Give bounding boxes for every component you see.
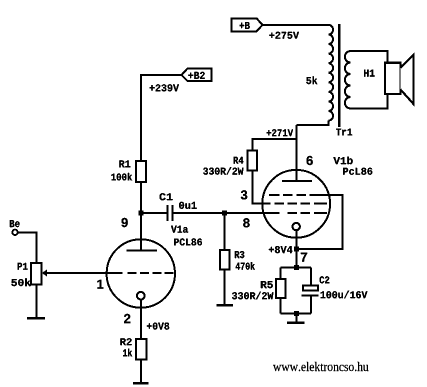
wire Be to P1 top bbox=[18, 231, 38, 233]
flag +B2 bbox=[182, 69, 212, 82]
capacitor C1 bbox=[167, 205, 174, 221]
wire R1 to node 9 bbox=[140, 182, 142, 213]
speaker H1 driver bbox=[385, 63, 400, 94]
label 100k bbox=[111, 173, 132, 181]
wire R2 to ground bbox=[140, 360, 142, 384]
wire R5 branch bottom bbox=[280, 298, 282, 314]
flag +B bbox=[231, 18, 262, 31]
label PcL86 bbox=[343, 168, 372, 175]
label 470k bbox=[236, 262, 255, 270]
node junction dot 9 bbox=[139, 211, 144, 216]
label Be bbox=[10, 220, 20, 227]
pentode V1b grid g1 row (dashed) bbox=[287, 212, 327, 214]
wire grid to P1 wiper bbox=[46, 272, 123, 274]
transformer Tr1 primary winding bbox=[329, 25, 334, 121]
label P1 bbox=[18, 263, 28, 270]
resistor R2 bbox=[136, 339, 147, 360]
pentode V1b envelope bbox=[262, 170, 330, 238]
pin 1 bbox=[97, 280, 103, 289]
wire C2 branch top bbox=[310, 268, 312, 286]
label +B2 bbox=[188, 72, 204, 79]
wire node 8 to R3 bbox=[224, 213, 226, 250]
label R2 bbox=[120, 338, 131, 345]
wire plate to +271V vertical bbox=[296, 125, 298, 181]
wire +B to primary bbox=[263, 24, 329, 26]
label 5k bbox=[306, 76, 317, 84]
pin 3 bbox=[241, 190, 248, 199]
ground P1 bbox=[27, 317, 45, 320]
wire R4 bottom to g2 bbox=[251, 171, 253, 204]
pentode V1b grid g3 row (dashed then solid to right loop) bbox=[269, 194, 344, 196]
pin 7 bbox=[301, 253, 307, 262]
wire R3 to ground bbox=[224, 270, 226, 306]
pin 6 bbox=[307, 156, 313, 165]
label 0u1 bbox=[179, 202, 197, 209]
wire primary bottom to anode line bbox=[297, 121, 329, 125]
triode V1a grid (dashed) bbox=[128, 272, 174, 274]
transformer Tr1 core bbox=[338, 24, 340, 127]
wire cathode V1b down bbox=[295, 229, 297, 267]
resistor R1 bbox=[136, 161, 146, 182]
triode V1a plate bbox=[127, 249, 158, 251]
label C2 bbox=[320, 276, 330, 283]
resistor R5 bbox=[276, 279, 286, 298]
label PCL86 bbox=[174, 238, 202, 245]
label 330R/2W R5 bbox=[232, 292, 273, 300]
label R1 bbox=[119, 160, 130, 167]
wire to ground R5C2 bbox=[295, 314, 297, 323]
wire P1 bottom vertical bbox=[36, 285, 38, 319]
capacitor C2 minus plate bbox=[301, 294, 318, 296]
wire g3 loop bottom to cathode node bbox=[296, 248, 343, 250]
label R4 bbox=[234, 157, 244, 164]
wire node to C1 bbox=[142, 212, 167, 214]
wire g3 loop right vertical bbox=[342, 195, 344, 249]
label V1a bbox=[171, 226, 188, 233]
node junction dot 8 bbox=[222, 211, 227, 216]
potentiometer P1 body bbox=[31, 263, 42, 285]
label +8V4 bbox=[269, 246, 293, 253]
ground R2 bbox=[133, 382, 149, 385]
pentode V1b grid g2 row bbox=[251, 203, 327, 205]
pentode V1b cathode bbox=[293, 223, 300, 230]
label Tr1 bbox=[336, 129, 352, 136]
label 330R/2W R4 bbox=[203, 167, 243, 175]
triode V1a envelope bbox=[107, 239, 175, 307]
wire C1 to node 8 bbox=[174, 212, 280, 214]
pentode V1b plate bbox=[282, 180, 312, 182]
label V1b bbox=[333, 157, 352, 165]
ground R5 C2 bbox=[287, 322, 305, 325]
input terminal Be bbox=[12, 230, 17, 235]
capacitor C2 plus plate bbox=[303, 286, 318, 291]
wire bottom rail R5 C2 bbox=[281, 313, 312, 315]
pin 9 bbox=[122, 218, 128, 227]
wire secondary loop bbox=[351, 51, 388, 109]
resistor R3 bbox=[220, 250, 230, 270]
node junction dot R5C2 bottom bbox=[294, 311, 299, 316]
label 100u/16V bbox=[321, 291, 368, 299]
potentiometer P1 wiper arrow bbox=[42, 270, 47, 277]
label +271V bbox=[267, 129, 294, 136]
ground R3 bbox=[217, 304, 234, 307]
wire +B2 horizontal bbox=[140, 74, 182, 76]
label C1 bbox=[160, 193, 173, 200]
label H1 bbox=[364, 70, 375, 77]
resistor R4 bbox=[248, 151, 258, 171]
label R3 bbox=[235, 251, 245, 258]
label +0V8 bbox=[147, 323, 169, 330]
label +B bbox=[240, 22, 250, 29]
speaker H1 horn bbox=[400, 55, 413, 104]
label +239V bbox=[150, 84, 180, 91]
wire C2 branch bottom bbox=[310, 297, 312, 314]
wire R5 branch top bbox=[280, 268, 282, 279]
label R5 bbox=[261, 281, 273, 288]
triode V1a cathode bbox=[137, 292, 145, 300]
label www.elektroncso.hu bbox=[273, 362, 369, 371]
wire +8V4 node rail bbox=[281, 267, 312, 269]
wire P1 top vertical bbox=[36, 232, 38, 263]
node junction dot R5C2 top bbox=[294, 265, 299, 270]
wire triode anode vertical bbox=[140, 213, 142, 250]
label +275V bbox=[269, 32, 299, 39]
transformer Tr1 secondary winding bbox=[345, 51, 351, 109]
wire main left vertical to R1 bbox=[140, 75, 142, 161]
wire R4 top bbox=[252, 139, 296, 150]
pin 8 bbox=[243, 218, 249, 227]
label 1k bbox=[123, 349, 132, 357]
node junction dot +8V4 bbox=[294, 247, 299, 252]
label 50k bbox=[11, 278, 30, 286]
pin 2 bbox=[124, 314, 130, 323]
wire cathode V1a to R2 bbox=[140, 301, 142, 340]
